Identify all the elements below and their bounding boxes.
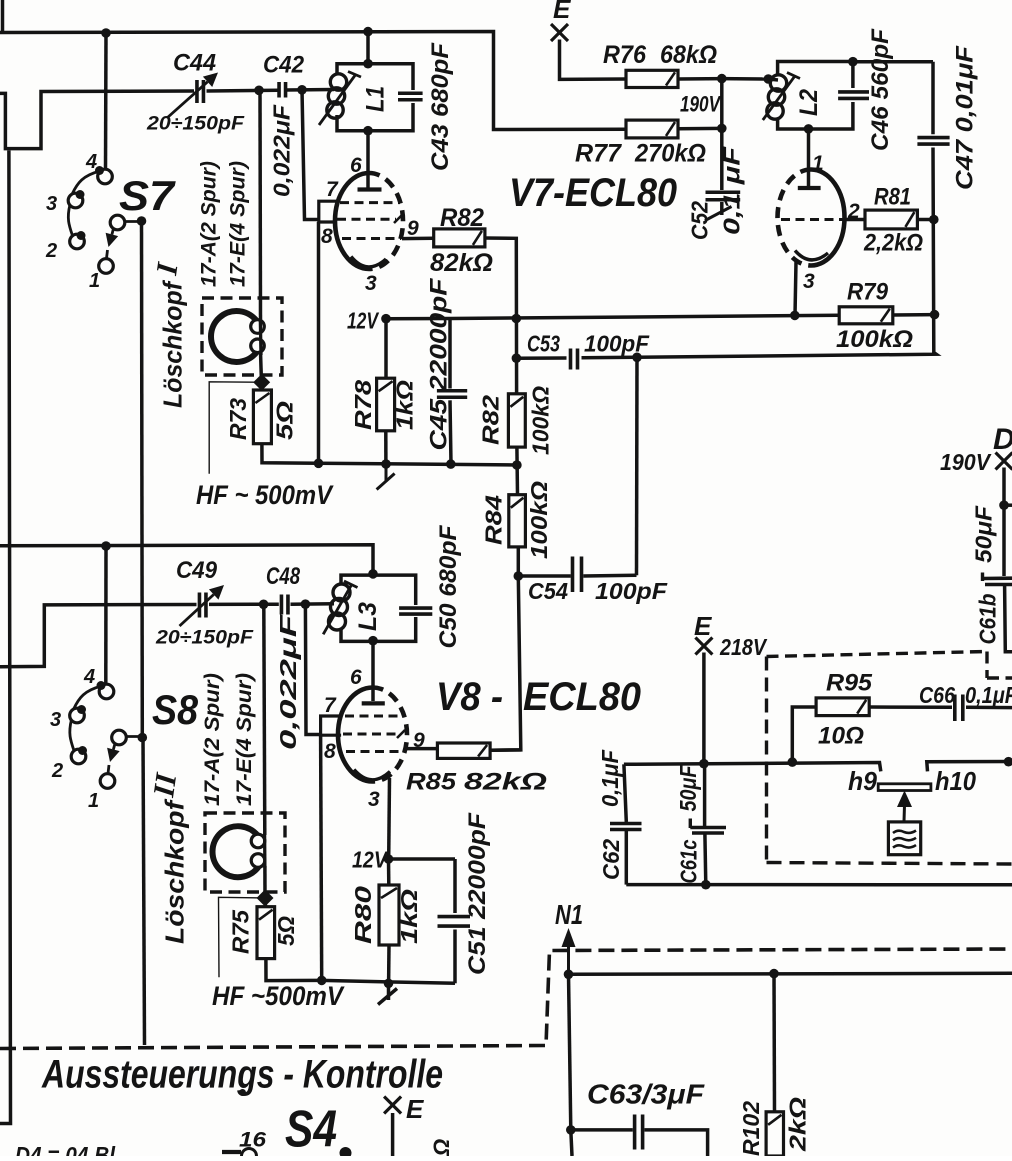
svg-text:3: 3 [365,272,377,295]
svg-text:2: 2 [45,240,57,262]
svg-text:C63/3μF: C63/3μF [587,1079,705,1110]
svg-text:V8 -: V8 - [436,675,503,719]
svg-text:C62: C62 [598,839,624,880]
svg-text:5Ω: 5Ω [272,401,298,440]
svg-text:Löschkopf: Löschkopf [157,280,187,408]
svg-text:Löschkopf: Löschkopf [159,798,189,944]
svg-text:L1: L1 [362,86,390,112]
svg-text:R85: R85 [406,769,457,796]
svg-text:Ω: Ω [429,1139,454,1156]
svg-text:50μF: 50μF [675,765,701,812]
svg-text:10Ω: 10Ω [818,723,864,750]
svg-text:17-A(2 Spur): 17-A(2 Spur) [201,673,224,806]
svg-text:R75: R75 [228,909,254,954]
svg-text:100pF: 100pF [584,331,650,357]
svg-text:L3: L3 [354,602,382,631]
svg-text:3: 3 [50,709,61,731]
svg-text:S8: S8 [152,686,199,733]
svg-text:3: 3 [368,788,380,811]
svg-text:V7-ECL80: V7-ECL80 [509,171,677,215]
svg-text:2: 2 [51,760,63,782]
svg-text:7: 7 [326,178,339,201]
svg-text:R76: R76 [603,41,647,69]
svg-text:S7: S7 [119,172,176,219]
svg-text:0,022μF: 0,022μF [275,614,301,750]
svg-text:R78: R78 [350,380,376,430]
svg-text:1kΩ: 1kΩ [392,380,418,430]
svg-text:20÷150pF: 20÷150pF [146,113,245,135]
svg-text:D: D [993,423,1012,456]
svg-text:7: 7 [324,694,337,717]
svg-text:4: 4 [85,151,97,173]
svg-text:C48: C48 [266,563,301,590]
svg-text:100kΩ: 100kΩ [528,386,554,455]
svg-text:h10: h10 [935,766,976,796]
svg-text:C53: C53 [527,331,560,357]
svg-text:270kΩ: 270kΩ [634,140,706,168]
svg-text:C61c: C61c [676,839,702,883]
svg-text:R81: R81 [874,184,911,211]
svg-text:C45 22000pF: C45 22000pF [425,277,452,451]
svg-text:12V: 12V [352,847,388,873]
svg-text:17-E(4 Spur): 17-E(4 Spur) [227,161,250,287]
svg-text:0,1μF: 0,1μF [597,749,623,807]
svg-text:N1: N1 [555,899,583,930]
svg-text:0,022μF: 0,022μF [269,104,295,197]
svg-text:R79: R79 [847,279,889,306]
svg-text:R82: R82 [478,395,504,445]
svg-text:R102: R102 [738,1101,764,1156]
svg-text:C66: C66 [919,682,955,708]
svg-text:R73: R73 [225,398,251,440]
svg-text:4: 4 [83,666,95,688]
svg-text:218V: 218V [719,634,767,660]
svg-text:C52: C52 [687,201,713,240]
svg-text:50μF: 50μF [971,505,997,563]
svg-text:C54: C54 [528,578,568,604]
svg-text:12V: 12V [347,308,379,334]
svg-text:ECL80: ECL80 [523,675,641,719]
svg-text:D4 = 04 Bl: D4 = 04 Bl [15,1142,116,1156]
svg-text:C44: C44 [173,50,216,77]
svg-text:R82: R82 [440,204,484,232]
svg-text:17-A(2 Spur): 17-A(2 Spur) [198,161,221,287]
svg-text:C47 0,01μF: C47 0,01μF [951,44,978,190]
svg-text:HF ~ 500mV: HF ~ 500mV [196,480,334,510]
svg-text:C51 22000pF: C51 22000pF [464,812,491,975]
svg-text:190V: 190V [940,449,992,475]
svg-text:68kΩ: 68kΩ [660,41,717,69]
svg-text:190V: 190V [680,92,722,117]
svg-text:3: 3 [46,193,57,215]
svg-text:1kΩ: 1kΩ [396,889,422,944]
svg-text:9: 9 [407,217,419,240]
svg-text:HF ~500mV: HF ~500mV [212,981,345,1011]
svg-text:1: 1 [89,270,100,292]
svg-text:3: 3 [803,270,815,293]
svg-text:C46 560pF: C46 560pF [867,28,894,151]
svg-text:R95: R95 [826,670,873,697]
svg-text:R84: R84 [481,495,507,545]
svg-text:2,2kΩ: 2,2kΩ [863,230,923,257]
svg-text:h9: h9 [848,766,878,796]
svg-text:1: 1 [812,152,824,175]
svg-text:82kΩ: 82kΩ [430,249,493,277]
svg-text:R80: R80 [350,886,376,944]
svg-text:E: E [694,611,712,641]
svg-text:0,1μF: 0,1μF [965,682,1012,708]
svg-text:L2: L2 [795,89,823,116]
svg-text:E: E [406,1094,424,1124]
svg-text:17-E(4 Spur): 17-E(4 Spur) [233,673,256,806]
svg-text:9: 9 [413,729,425,752]
svg-text:C61b: C61b [975,594,1001,645]
svg-text:C50 680pF: C50 680pF [435,524,462,648]
svg-text:R77: R77 [575,140,622,168]
svg-text:2kΩ: 2kΩ [785,1097,811,1152]
svg-text:20÷150pF: 20÷150pF [155,627,254,649]
svg-text:C43 680pF: C43 680pF [427,42,454,171]
svg-text:1: 1 [88,790,99,812]
svg-text:82kΩ: 82kΩ [464,769,547,796]
svg-text:E: E [553,0,571,24]
svg-text:S4: S4 [285,1101,337,1157]
svg-text:C42: C42 [263,52,305,79]
svg-text:100pF: 100pF [595,578,668,604]
svg-text:8: 8 [324,740,336,763]
svg-text:100kΩ: 100kΩ [526,481,552,559]
svg-text:8: 8 [321,225,333,248]
svg-text:C49: C49 [176,557,218,584]
svg-text:2: 2 [847,200,860,223]
svg-text:6: 6 [350,154,362,177]
svg-text:0,1 μF: 0,1 μF [719,146,745,235]
svg-text:100kΩ: 100kΩ [836,326,913,353]
svg-text:5Ω: 5Ω [273,916,299,946]
svg-text:6: 6 [350,666,362,689]
